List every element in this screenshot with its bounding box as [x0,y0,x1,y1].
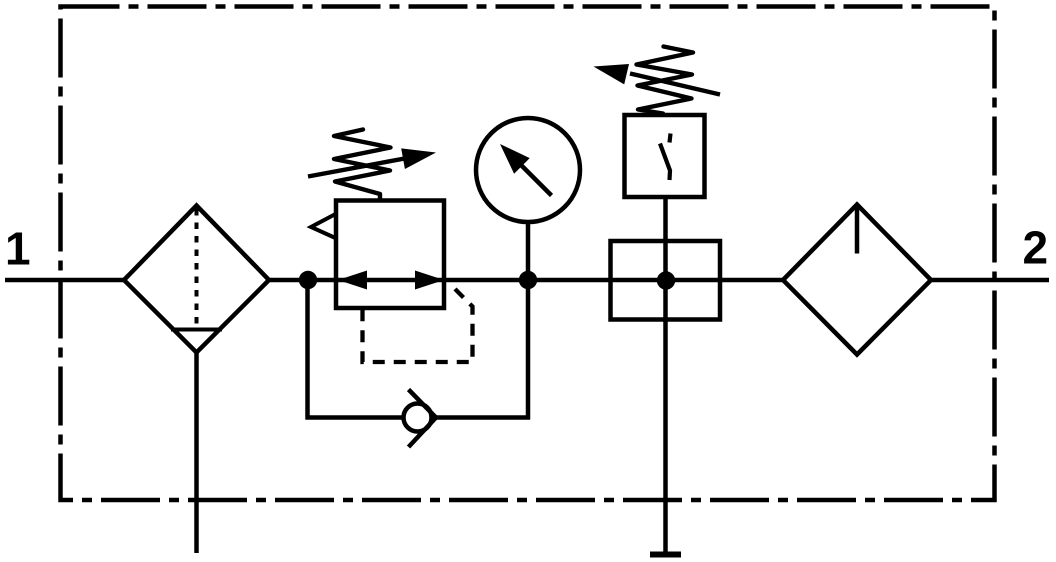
pressure regulator R1 body [336,201,444,309]
svg-text:2: 2 [1023,222,1049,274]
wire: main line filter to lubricator [267,278,784,283]
exhaust line end bar [650,552,681,558]
pressure gauge G1 [476,118,580,280]
node: junction inside on-off valve [657,271,675,289]
on-off valve V1 body [611,241,721,320]
wire: on-off valve vertical line [663,197,668,552]
lubricator L1 [783,205,931,355]
regulator spring [334,130,391,200]
filter with water separator [124,206,269,353]
on-off valve spring [637,47,694,114]
assembly boundary (dash-dot enclosure) [61,7,995,501]
on-off valve pilot box [625,115,705,197]
regulator adjustment arrow [308,148,436,176]
pilot box switch symbol [660,134,671,181]
check valve [404,390,437,448]
node: junction below gauge [519,271,537,289]
regulator flow arrow right [415,271,444,290]
regulator relief vent triangle [311,214,337,239]
wire: bypass bottom run (right of check valve) [434,415,530,420]
wire: filter drain line [194,352,199,553]
node: junction at regulator inlet [299,271,317,289]
wire: port 1 to filter [5,278,126,283]
wire: bypass up-leg to gauge junction [526,280,531,420]
wire: lubricator to port 2 [929,278,1049,283]
on-off valve release arrow [594,64,721,95]
pilot line (dashed) [363,289,473,362]
wire: bypass bottom run (left of check valve) [306,415,405,420]
regulator flow arrow left [338,271,367,290]
wire: bypass down-leg from inlet junction [305,280,310,420]
svg-text:1: 1 [5,223,31,275]
